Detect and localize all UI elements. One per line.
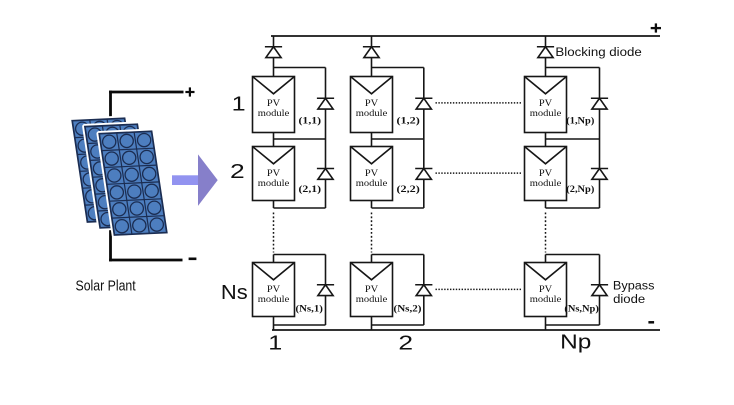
svg-text:Bypass: Bypass <box>613 281 655 293</box>
svg-text:2: 2 <box>230 160 245 183</box>
svg-text:module: module <box>258 294 290 304</box>
svg-text:diode: diode <box>613 294 645 306</box>
svg-text:1: 1 <box>232 93 246 116</box>
svg-text:module: module <box>356 108 388 118</box>
svg-text:PV: PV <box>267 98 281 108</box>
svg-text:PV: PV <box>365 284 379 294</box>
svg-text:module: module <box>356 178 388 188</box>
svg-text:module: module <box>258 108 290 118</box>
svg-text:PV: PV <box>539 284 553 294</box>
svg-text:(1,1): (1,1) <box>299 116 322 127</box>
svg-text:(Ns,1): (Ns,1) <box>296 304 323 315</box>
svg-text:(Ns,Np): (Ns,Np) <box>564 304 598 315</box>
svg-text:PV: PV <box>365 98 379 108</box>
svg-text:PV: PV <box>365 168 379 178</box>
svg-text:(Ns,2): (Ns,2) <box>394 304 422 315</box>
svg-text:module: module <box>530 108 562 118</box>
svg-text:PV: PV <box>539 98 553 108</box>
svg-text:Ns: Ns <box>221 281 248 304</box>
svg-text:module: module <box>530 178 562 188</box>
svg-text:2: 2 <box>398 332 413 355</box>
svg-text:Blocking diode: Blocking diode <box>555 47 641 59</box>
svg-text:(1,2): (1,2) <box>397 116 420 127</box>
svg-text:(2,2): (2,2) <box>397 184 420 195</box>
svg-text:1: 1 <box>268 332 282 355</box>
svg-text:Solar Plant: Solar Plant <box>76 278 136 294</box>
svg-text:(2,Np): (2,Np) <box>566 184 594 195</box>
svg-text:module: module <box>356 294 388 304</box>
svg-text:module: module <box>258 178 290 188</box>
svg-text:PV: PV <box>267 168 281 178</box>
svg-text:module: module <box>530 294 562 304</box>
svg-text:PV: PV <box>539 168 553 178</box>
svg-text:(1,Np): (1,Np) <box>566 116 594 127</box>
svg-text:(2,1): (2,1) <box>299 184 322 195</box>
svg-text:Np: Np <box>560 331 591 354</box>
svg-text:PV: PV <box>267 284 281 294</box>
